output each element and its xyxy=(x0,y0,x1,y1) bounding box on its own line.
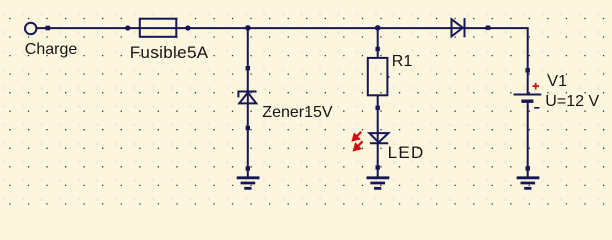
wire: corner to battery top xyxy=(527,27,529,93)
junction square above right ground xyxy=(526,166,530,170)
wire: R1 bottom to LED anode xyxy=(377,95,379,176)
junction square right of diode xyxy=(486,26,491,30)
terminal Charge xyxy=(25,23,36,34)
connection dot fuse right pin xyxy=(185,25,190,30)
battery V1 positive plate xyxy=(514,94,542,96)
label Fusible5A xyxy=(130,45,209,61)
LED light arrow 1 xyxy=(356,132,362,138)
zener Zener15V cathode bar xyxy=(237,92,256,98)
junction square zener branch upper xyxy=(246,66,250,70)
label LED xyxy=(388,145,425,161)
ground symbol right xyxy=(517,178,540,189)
LED triangle xyxy=(369,133,388,142)
battery plus sign xyxy=(533,83,540,90)
junction square top of R1 xyxy=(376,47,380,51)
wire: battery minus to right ground xyxy=(527,103,529,177)
wire: terminal to diode anode xyxy=(37,27,528,29)
junction square between R1 and LED xyxy=(376,106,380,110)
LED light arrow 2 xyxy=(357,141,363,147)
ground symbol middle xyxy=(367,178,390,189)
junction dot node zener branch xyxy=(245,25,251,31)
battery V1 negative plate xyxy=(521,99,533,102)
diode D1 cathode bar xyxy=(464,18,466,37)
LED cathode bar xyxy=(370,142,388,144)
label Charge xyxy=(25,42,77,58)
label R1 xyxy=(392,54,412,70)
battery V1 minus label xyxy=(534,107,539,109)
junction square zener branch lower xyxy=(246,126,250,130)
resistor R1 body xyxy=(368,58,388,95)
label V1 xyxy=(547,74,567,90)
junction square above middle ground xyxy=(376,165,380,169)
junction square battery branch xyxy=(526,68,530,72)
diode D1 triangle xyxy=(452,19,463,36)
junction dot node R1 branch xyxy=(375,25,381,31)
fuse Fusible5A body xyxy=(140,19,177,37)
junction square above left ground xyxy=(246,166,250,170)
wire: zener branch down from junction xyxy=(247,29,249,177)
ground symbol left xyxy=(237,178,260,189)
label Zener15V xyxy=(262,105,332,121)
zener Zener15V triangle xyxy=(239,93,256,104)
label U=12 V xyxy=(545,94,599,110)
wire: R1 branch down from junction xyxy=(377,29,379,58)
junction square near terminal xyxy=(46,26,51,31)
resistor R1 pin nub xyxy=(387,76,389,78)
connection dot fuse left pin xyxy=(125,25,130,30)
